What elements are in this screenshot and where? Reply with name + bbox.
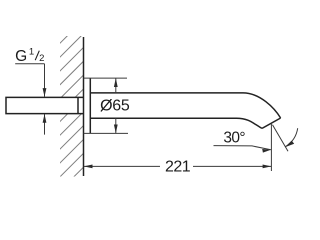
svg-text:1: 1 <box>29 47 34 58</box>
svg-text:221: 221 <box>165 159 191 176</box>
svg-text:30°: 30° <box>223 129 245 146</box>
svg-text:65: 65 <box>112 98 130 115</box>
svg-text:G: G <box>15 48 27 65</box>
svg-text:2: 2 <box>39 53 44 64</box>
